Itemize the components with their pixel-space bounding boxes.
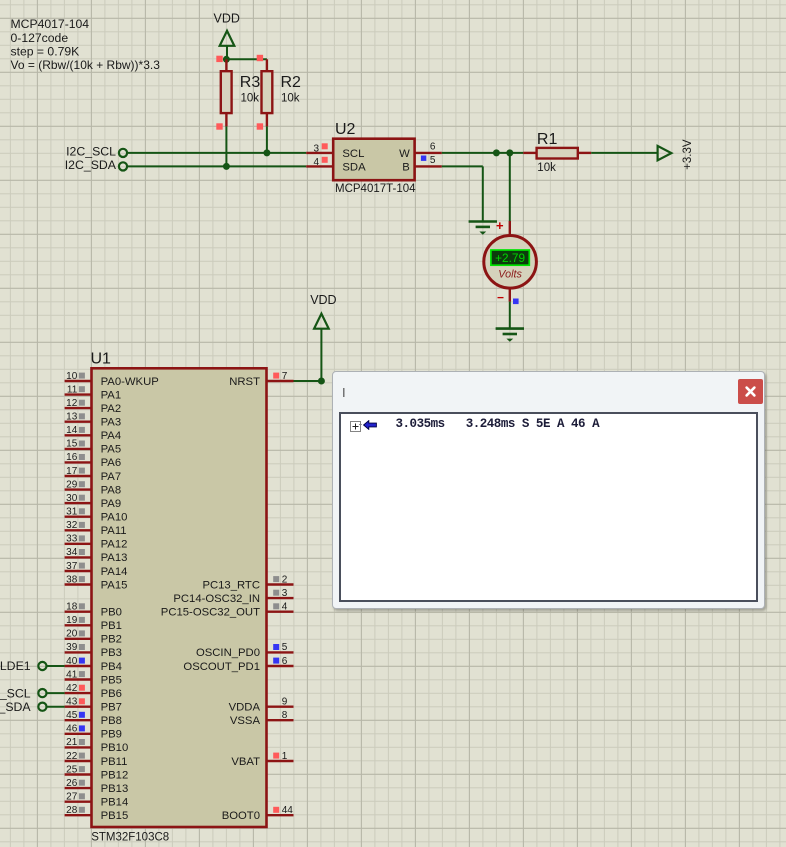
svg-text:33: 33 [66, 534, 78, 545]
U1 pin 45 PB8 [65, 719, 92, 721]
resistor R1 left stub [523, 152, 536, 154]
resistor R3 top pin stub [225, 59, 227, 71]
svg-text:Vo = (Rbw/(10k + Rbw))*3.3: Vo = (Rbw/(10k + Rbw))*3.3 [11, 58, 161, 72]
svg-text:44: 44 [282, 805, 294, 816]
svg-text:19: 19 [66, 615, 78, 626]
svg-text:−: − [497, 291, 504, 305]
pin marker blue voltmeter minus [513, 299, 519, 305]
U1 pin 22 PB11 [65, 760, 92, 762]
pin marker blue U2 pin5 [421, 156, 426, 161]
svg-text:PB15: PB15 [101, 810, 129, 822]
U2 pin 6 stub [415, 152, 442, 154]
svg-text:6: 6 [282, 656, 288, 667]
svg-text:VBAT: VBAT [231, 756, 260, 768]
svg-text:I2C_SCL: I2C_SCL [66, 145, 116, 159]
svg-text:30: 30 [66, 493, 78, 504]
svg-text:PB7: PB7 [101, 702, 122, 714]
svg-text:10: 10 [66, 371, 78, 382]
node junction VDD/R3/R2 [223, 56, 230, 63]
svg-text:B: B [402, 161, 410, 173]
U1 pin 29 PA8 [65, 488, 92, 490]
U1 pin 43 PB7 [65, 706, 92, 708]
svg-text:R2: R2 [281, 74, 302, 91]
svg-text:W: W [399, 148, 410, 160]
svg-text:15: 15 [66, 439, 78, 450]
pin marker red R2 top [257, 55, 263, 61]
svg-text:42: 42 [66, 683, 78, 694]
expander plus box [350, 421, 361, 432]
svg-text:3: 3 [313, 143, 319, 154]
svg-text:31: 31 [66, 507, 78, 518]
pin marker red R3 top [216, 56, 222, 62]
U1 pin 13 PA3 [65, 421, 92, 423]
svg-text:PA11: PA11 [101, 525, 127, 537]
svg-text:32: 32 [66, 520, 78, 531]
svg-text:3: 3 [282, 588, 288, 599]
resistor R2 top pin stub [266, 59, 268, 71]
U1 pin 11 PA1 [65, 393, 92, 395]
resistor R1 body [537, 148, 578, 159]
svg-text:12: 12 [66, 398, 78, 409]
resistor R2 body [262, 71, 273, 113]
U1 pin 8 VSSA [267, 719, 294, 721]
svg-text:VDDA: VDDA [229, 702, 261, 714]
I2C debugger dialog window [332, 371, 765, 609]
resistor R2 bottom pin stub [266, 113, 268, 126]
svg-text:27: 27 [66, 792, 78, 803]
terminal I2C_SDA [119, 162, 127, 170]
wire R3 to SDA net [225, 126, 227, 166]
svg-text:5: 5 [282, 642, 288, 653]
svg-text:PA4: PA4 [101, 430, 122, 442]
wire W junction down to voltmeter [509, 153, 511, 221]
U1 pin 33 PA12 [65, 543, 92, 545]
U1 pin 10 PA0-WKUP [65, 380, 92, 382]
svg-text:39: 39 [66, 642, 78, 653]
svg-text:PB12: PB12 [101, 769, 129, 781]
U1 pin 30 PA9 [65, 502, 92, 504]
svg-text:26: 26 [66, 778, 78, 789]
U1 pin 19 PB1 [65, 624, 92, 626]
svg-text:41: 41 [66, 669, 78, 680]
node junction R3/SDA [223, 163, 230, 170]
wire junction to R2 top [226, 58, 267, 60]
wire B net down [482, 166, 484, 221]
ground GND2 [496, 327, 524, 330]
svg-text:SCL: SCL [342, 148, 364, 160]
U1 pin 16 PA6 [65, 461, 92, 463]
svg-text:PA0-WKUP: PA0-WKUP [101, 376, 159, 388]
resistor R3 bottom pin stub [225, 113, 227, 126]
U1 pin 12 PA2 [65, 407, 92, 409]
U1 pin 44 BOOT0 [267, 814, 294, 816]
svg-text:5: 5 [430, 155, 436, 166]
node junction on W net [493, 149, 500, 156]
svg-text:PC15-OSC32_OUT: PC15-OSC32_OUT [161, 607, 260, 619]
svg-text:0-127code: 0-127code [11, 31, 69, 45]
svg-text:MCP4017-104: MCP4017-104 [11, 17, 90, 31]
wire VDD2 down [320, 329, 322, 381]
U1 pin 2 PC13_RTC [267, 583, 294, 585]
svg-text:20: 20 [66, 629, 78, 640]
svg-text:PA10: PA10 [101, 512, 128, 524]
svg-text:4: 4 [313, 157, 319, 168]
svg-text:10k: 10k [281, 92, 300, 104]
wire VDD to junction [226, 46, 228, 60]
svg-text:46: 46 [66, 724, 78, 735]
svg-text:8: 8 [282, 710, 288, 721]
pin marker red U2 pin4 [322, 157, 328, 163]
svg-text:PA5: PA5 [101, 444, 122, 456]
U1 pin 27 PB14 [65, 801, 92, 803]
U1 pin 1 VBAT [267, 760, 294, 762]
svg-text:PB3: PB3 [101, 647, 122, 659]
svg-text:2: 2 [282, 574, 288, 585]
svg-text:PB14: PB14 [101, 797, 129, 809]
svg-text:C_SCL: C_SCL [0, 686, 31, 700]
svg-text:18: 18 [66, 602, 78, 613]
U1 pin 4 PC15-OSC32_OUT [267, 611, 294, 613]
pin marker red R3 bottom [216, 123, 222, 129]
svg-text:PB0: PB0 [101, 607, 122, 619]
ground GND1 [469, 220, 497, 223]
U1 pin 32 PA11 [65, 529, 92, 531]
svg-text:PB10: PB10 [101, 742, 129, 754]
wire SDA net [127, 165, 306, 167]
svg-text:PB4: PB4 [101, 661, 122, 673]
svg-text:PA13: PA13 [101, 552, 128, 564]
svg-text:22: 22 [66, 751, 78, 762]
U1 pin 6 OSCOUT_PD1 [267, 665, 294, 667]
svg-text:U2: U2 [335, 121, 356, 138]
svg-text:NRST: NRST [229, 376, 260, 388]
U1 pin 17 PA7 [65, 475, 92, 477]
svg-text:PA9: PA9 [101, 498, 122, 510]
U1 pin 14 PA4 [65, 434, 92, 436]
wire R2 to SCL net [266, 126, 268, 152]
svg-text:PA15: PA15 [101, 579, 128, 591]
svg-text:LDE1: LDE1 [0, 659, 31, 673]
svg-text:PB2: PB2 [101, 634, 122, 646]
power +3.3V symbol [658, 146, 672, 160]
U2 pin 4 stub [306, 165, 333, 167]
U1 pin 3 PC14-OSC32_IN [267, 597, 294, 599]
node junction meter branch [506, 149, 513, 156]
svg-text:PA3: PA3 [101, 417, 122, 429]
svg-text:PB5: PB5 [101, 674, 122, 686]
svg-text:BOOT0: BOOT0 [222, 810, 260, 822]
U1 pin 31 PA10 [65, 516, 92, 518]
svg-text:C_SDA: C_SDA [0, 700, 31, 714]
blue arrow icon [363, 420, 377, 430]
svg-text:4: 4 [282, 602, 288, 613]
U1 pin 40 PB4 [65, 665, 92, 667]
U2 pin 5 stub [415, 165, 442, 167]
U1 pin 28 PB15 [65, 814, 92, 816]
chip U1 body [92, 368, 267, 827]
voltmeter body [484, 235, 537, 288]
svg-text:37: 37 [66, 561, 78, 572]
svg-text:21: 21 [66, 737, 78, 748]
resistor R1 right stub [578, 152, 591, 154]
wire NRST to VDD [294, 380, 322, 382]
svg-text:PA6: PA6 [101, 457, 122, 469]
wire SCL net [127, 152, 306, 154]
svg-text:SDA: SDA [342, 161, 366, 173]
svg-text:+2.79: +2.79 [495, 251, 525, 265]
wire B net right [442, 165, 483, 167]
svg-text:Volts: Volts [498, 269, 522, 281]
U1 pin 15 PA5 [65, 448, 92, 450]
svg-text:13: 13 [66, 412, 78, 423]
svg-text:step = 0.79K: step = 0.79K [11, 44, 80, 58]
U1 pin 34 PA13 [65, 556, 92, 558]
node junction NRST/VDD [318, 378, 325, 385]
U1 pin 9 VDDA [267, 706, 294, 708]
svg-text:PA7: PA7 [101, 471, 122, 483]
svg-text:43: 43 [66, 697, 78, 708]
svg-text:PB6: PB6 [101, 688, 122, 700]
svg-text:14: 14 [66, 425, 78, 436]
U1 pin 39 PB3 [65, 651, 92, 653]
node junction R2/SCL [263, 149, 270, 156]
svg-text:9: 9 [282, 697, 288, 708]
voltmeter display [491, 250, 529, 265]
power VDD symbol (NRST) [314, 314, 329, 329]
svg-text:U1: U1 [91, 351, 112, 368]
wire R1 to +3.3V [591, 152, 657, 154]
svg-text:28: 28 [66, 805, 78, 816]
svg-text:PB1: PB1 [101, 620, 122, 632]
svg-text:PB9: PB9 [101, 729, 122, 741]
svg-text:6: 6 [430, 141, 436, 152]
U1 pin 18 PB0 [65, 611, 92, 613]
svg-text:38: 38 [66, 574, 78, 585]
svg-text:29: 29 [66, 479, 78, 490]
pin marker red U2 pin3 [322, 143, 328, 149]
svg-text:PB13: PB13 [101, 783, 129, 795]
svg-text:+: + [496, 218, 504, 233]
svg-text:R3: R3 [240, 74, 261, 91]
svg-text:PA12: PA12 [101, 539, 128, 551]
U1 pin 38 PA15 [65, 583, 92, 585]
svg-text:PA8: PA8 [101, 484, 122, 496]
svg-text:VSSA: VSSA [230, 715, 261, 727]
U1 pin 21 PB10 [65, 746, 92, 748]
svg-text:PB11: PB11 [101, 756, 128, 768]
svg-text:25: 25 [66, 764, 78, 775]
svg-text:40: 40 [66, 656, 78, 667]
svg-text:PA2: PA2 [101, 403, 122, 415]
voltmeter + pin stub [509, 221, 511, 236]
svg-text:PA1: PA1 [101, 389, 122, 401]
svg-text:45: 45 [66, 710, 78, 721]
terminal I2C_SCL [119, 149, 127, 157]
U1 pin 41 PB5 [65, 678, 92, 680]
power VDD symbol (top) [220, 31, 235, 46]
svg-text:16: 16 [66, 452, 78, 463]
svg-text:11: 11 [67, 384, 78, 395]
debugger text row [396, 414, 600, 432]
svg-text:MCP4017T-104: MCP4017T-104 [335, 183, 416, 195]
svg-text:PA14: PA14 [101, 566, 128, 578]
U1 pin 25 PB12 [65, 773, 92, 775]
U1 pin 26 PB13 [65, 787, 92, 789]
svg-text:STM32F103C8: STM32F103C8 [91, 832, 169, 844]
resistor R3 body [221, 71, 232, 113]
svg-text:1: 1 [282, 751, 288, 762]
U1 pin 42 PB6 [65, 692, 92, 694]
svg-text:PC13_RTC: PC13_RTC [202, 579, 260, 591]
U1 pin 46 PB9 [65, 733, 92, 735]
U1 pin 7 NRST [267, 380, 294, 382]
svg-text:VDD: VDD [310, 293, 336, 307]
voltmeter - pin stub [509, 288, 511, 302]
svg-text:17: 17 [66, 466, 78, 477]
svg-text:PC14-OSC32_IN: PC14-OSC32_IN [173, 593, 260, 605]
svg-text:10k: 10k [537, 162, 556, 174]
svg-text:I2C_SDA: I2C_SDA [65, 158, 117, 172]
svg-text:10k: 10k [241, 92, 260, 104]
svg-text:PB8: PB8 [101, 715, 122, 727]
pin marker red R2 bottom [257, 123, 263, 129]
wire W net [442, 152, 524, 154]
svg-text:+3.3V: +3.3V [682, 139, 694, 170]
U2 pin 3 stub [306, 152, 333, 154]
svg-text:R1: R1 [537, 131, 558, 148]
chip U2 body [333, 139, 414, 181]
svg-text:VDD: VDD [214, 12, 240, 26]
U1 pin 20 PB2 [65, 638, 92, 640]
svg-text:7: 7 [282, 371, 288, 382]
svg-text:OSCIN_PD0: OSCIN_PD0 [196, 647, 260, 659]
U1 pin 37 PA14 [65, 570, 92, 572]
U1 pin 5 OSCIN_PD0 [267, 651, 294, 653]
svg-text:OSCOUT_PD1: OSCOUT_PD1 [183, 661, 260, 673]
svg-text:34: 34 [66, 547, 78, 558]
wire voltmeter to ground [509, 302, 511, 329]
